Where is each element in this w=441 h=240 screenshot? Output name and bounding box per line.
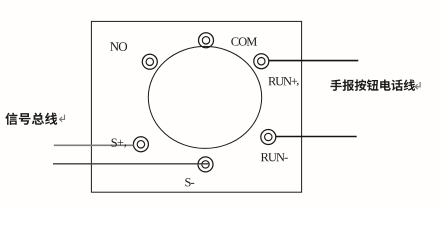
terminal RUN- <box>261 130 276 145</box>
terminal COM <box>199 33 214 48</box>
return mark after 信号总线 <box>60 115 65 122</box>
label RUN- <box>261 153 269 161</box>
label S+ <box>112 138 117 146</box>
terminal block outline (box) <box>91 21 301 192</box>
button face circle <box>148 46 261 148</box>
label NO <box>110 42 119 51</box>
wire RUN+ to phone line <box>269 60 359 62</box>
label 手报按钮电话线 (manual call point phone line) <box>331 79 342 90</box>
wire S- to signal bus <box>53 163 209 165</box>
terminal S- <box>198 157 213 172</box>
label COM <box>231 37 238 45</box>
wire RUN- to phone line <box>276 136 357 138</box>
terminal NO <box>142 54 157 69</box>
label 信号总线 (signal bus) <box>5 113 17 125</box>
terminal S+ <box>133 137 148 152</box>
wire S+ to signal bus <box>54 144 134 146</box>
return mark after 手报按钮电话线 <box>415 82 420 89</box>
label S- <box>185 178 190 186</box>
terminal RUN+ <box>254 54 269 69</box>
label RUN+ <box>268 77 276 85</box>
